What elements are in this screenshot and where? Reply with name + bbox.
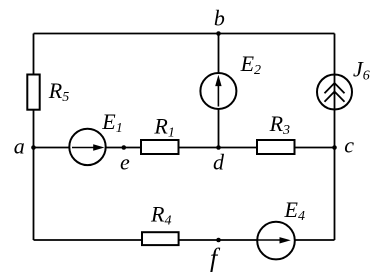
svg-text:R1: R1 [153, 114, 174, 141]
source E1 [69, 109, 122, 165]
resistor R4 [142, 202, 179, 245]
wire middle a-c [34, 147, 335, 149]
wire b-d [218, 34, 220, 148]
source E2 [200, 51, 261, 109]
source E4 [257, 197, 305, 259]
svg-text:R3: R3 [269, 111, 290, 138]
svg-text:E2: E2 [240, 51, 261, 78]
node d [213, 145, 225, 174]
svg-text:e: e [120, 150, 130, 175]
svg-text:f: f [210, 244, 221, 273]
svg-text:R5: R5 [48, 78, 69, 105]
svg-text:a: a [14, 134, 25, 159]
node e [120, 145, 130, 174]
wire bottom [34, 239, 335, 241]
svg-text:E1: E1 [101, 109, 122, 136]
current source J6 [317, 57, 370, 110]
node f [210, 238, 221, 273]
wire right [334, 34, 336, 241]
resistor R5 [27, 75, 69, 110]
svg-text:E4: E4 [284, 197, 305, 224]
svg-text:c: c [344, 133, 354, 158]
resistor R1 [141, 114, 179, 155]
node b [214, 5, 225, 36]
wire top b [34, 33, 335, 35]
node c [332, 133, 354, 158]
svg-text:d: d [213, 150, 225, 175]
resistor R3 [257, 111, 295, 154]
svg-text:b: b [214, 5, 225, 30]
wire left [33, 34, 35, 241]
svg-text:J6: J6 [353, 57, 370, 84]
node a [14, 134, 36, 159]
svg-text:R4: R4 [150, 202, 171, 229]
